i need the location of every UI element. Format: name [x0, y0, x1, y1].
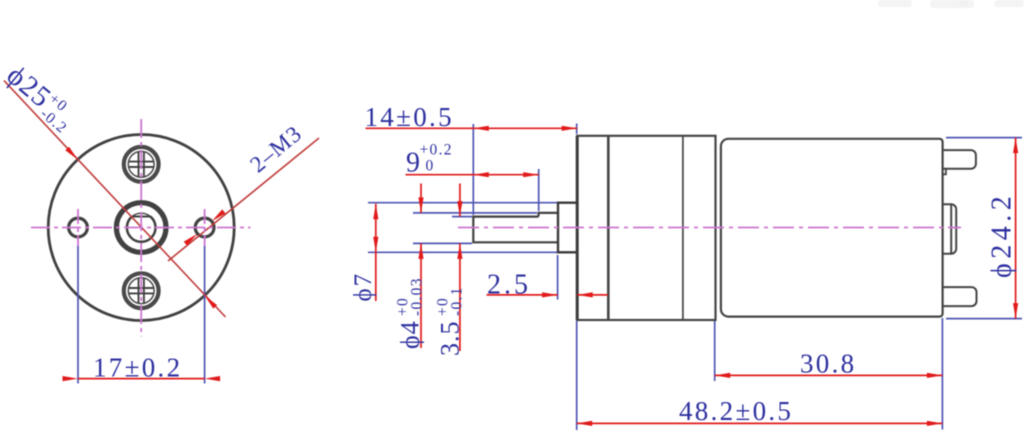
svg-text:-0.2: -0.2 — [37, 105, 71, 137]
label 2-M3 — [245, 121, 306, 178]
label Ø24.2 — [987, 192, 1018, 278]
gearbox cover seam — [607, 136, 610, 320]
gearbox seam 2 — [682, 136, 684, 320]
label Ø25 +0/-0.2 — [0, 59, 82, 137]
extension line gearbox face upper — [576, 124, 578, 135]
svg-text:30.8: 30.8 — [800, 349, 856, 379]
extension line Ø7 bottom — [368, 251, 557, 253]
centerline right hole — [204, 209, 206, 246]
svg-text:9: 9 — [406, 148, 420, 179]
svg-text:48.2±0.5: 48.2±0.5 — [679, 396, 793, 426]
gearbox housing — [577, 136, 715, 320]
watermark remnant top-right — [878, 0, 1024, 8]
extension line motor rear — [941, 318, 943, 430]
svg-text:3.5: 3.5 — [436, 321, 465, 357]
centerline left hole — [77, 209, 79, 246]
svg-text:ϕ4: ϕ4 — [396, 320, 425, 349]
screw hole bottom: inner circle — [128, 278, 154, 304]
mount hole right — [195, 218, 214, 237]
svg-text:17±0.2: 17±0.2 — [93, 353, 182, 383]
label 3.5 +0/-0.1 — [435, 286, 466, 356]
shaft flat chord — [132, 216, 151, 218]
extension line Ø4 top — [413, 212, 537, 214]
extension line collar left — [557, 255, 559, 300]
screw hole top: cross slots — [129, 152, 154, 177]
svg-text:2.5: 2.5 — [487, 270, 531, 301]
dimension Ø4 — [418, 184, 423, 349]
svg-text:14±0.5: 14±0.5 — [365, 102, 454, 132]
screw hole bottom: cross slots — [129, 278, 154, 303]
motor can — [721, 139, 943, 317]
centerline vertical (front view) — [140, 119, 142, 337]
dimension 30.8 — [715, 373, 943, 378]
shaft with flat — [473, 213, 558, 242]
extension line Ø7 top — [368, 202, 557, 204]
extension line shaft bottom — [413, 242, 472, 244]
svg-text:-0.03: -0.03 — [409, 277, 426, 316]
dimension diagonal Ø25 — [4, 81, 226, 317]
shaft bore circle Ø4 (upper arc above flat) — [132, 213, 150, 216]
shaft bore circle Ø4 (lower arc) — [127, 217, 156, 242]
svg-text:+0.2: +0.2 — [420, 142, 453, 159]
extension line shaft tip — [472, 124, 474, 215]
centerline (side view) — [458, 227, 961, 229]
extension line gearbox face lower — [576, 321, 578, 430]
dimension 14±0.5 — [366, 126, 578, 131]
dimension 9 — [406, 172, 539, 177]
screw hole top: inner circle — [128, 151, 154, 177]
terminal top base tick — [943, 169, 946, 174]
dimension Ø7 — [373, 204, 378, 301]
gearbox face line — [576, 136, 579, 320]
terminal top — [943, 150, 976, 169]
dimension 3.5 — [457, 184, 462, 352]
extension line left (17 dim) — [77, 246, 79, 384]
extension line flat top — [452, 216, 472, 218]
extension line shaft step — [538, 169, 540, 211]
svg-text:2–M3: 2–M3 — [245, 121, 306, 178]
dimension line 17±0.2 — [63, 376, 221, 381]
leader 2-M3 — [168, 138, 319, 261]
extension line Ø24.2 bottom — [946, 318, 1022, 320]
mount hole left — [69, 218, 88, 237]
svg-text:0: 0 — [426, 158, 435, 175]
motor flange outer circle Ø25 — [48, 135, 234, 321]
terminal bottom — [943, 287, 977, 306]
svg-text:ϕ7: ϕ7 — [350, 272, 377, 302]
rear bearing hub — [943, 204, 957, 253]
extension line Ø24.2 top — [946, 137, 1022, 139]
extension line right (17 dim) — [204, 246, 206, 384]
dimension Ø24.2 — [1013, 138, 1018, 319]
screw hole top: outer ring — [124, 147, 159, 182]
screw hole bottom: outer ring — [124, 273, 159, 308]
dimension 48.2±0.5 — [577, 421, 943, 426]
label Ø7 — [350, 272, 377, 302]
svg-text:ϕ24.2: ϕ24.2 — [987, 192, 1018, 278]
svg-text:-0.1: -0.1 — [449, 286, 466, 316]
shaft boss outer ring Ø7 — [116, 203, 166, 253]
label Ø4 +0/-0.03 — [395, 277, 426, 349]
centerline horizontal (front view) — [31, 227, 251, 229]
shaft collar Ø7 — [558, 203, 577, 253]
dimension 2.5 — [487, 292, 608, 297]
extension line gearbox/motor joint — [714, 321, 716, 381]
